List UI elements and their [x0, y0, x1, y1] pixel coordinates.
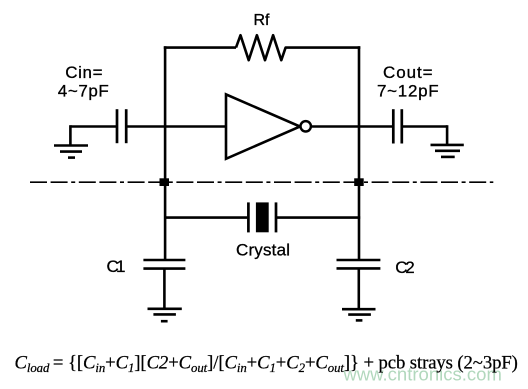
wire input to inverter — [127, 125, 226, 128]
svg-text:C1: C1 — [107, 257, 126, 276]
svg-text:C2: C2 — [395, 258, 415, 277]
capacitor C1 — [143, 260, 185, 269]
node junction left — [160, 178, 170, 186]
wire output right segment — [403, 125, 447, 128]
node junction right — [354, 178, 364, 186]
svg-text:4~7pF: 4~7pF — [58, 82, 109, 101]
wire right vertical (output node) — [358, 46, 361, 260]
wire output segment — [312, 125, 393, 128]
capacitor Cin — [117, 109, 126, 143]
svg-text:Cout=: Cout= — [383, 63, 433, 82]
wire C1 to ground — [163, 269, 166, 309]
ground right — [431, 145, 464, 157]
resistor Rf — [236, 35, 288, 60]
capacitor C2 — [337, 260, 381, 268]
inverter U1 output bubble — [301, 121, 311, 131]
wire ground drop left — [69, 125, 72, 146]
svg-text:Rf: Rf — [254, 12, 271, 29]
svg-text:Cin=: Cin= — [65, 63, 102, 82]
wire crystal left — [164, 216, 247, 219]
ground C1 — [148, 309, 182, 321]
crystal X1 — [248, 202, 276, 232]
svg-text:Cload = {[Cin+C1][C2+Cout]/[Ci: Cload = {[Cin+C1][C2+Cout]/[Cin+C1+C2+Co… — [15, 353, 518, 376]
wire left vertical (input node) — [164, 46, 167, 260]
board boundary dash-dot line — [30, 181, 493, 183]
svg-text:7~12pF: 7~12pF — [377, 82, 439, 101]
wire top right from resistor — [288, 46, 360, 49]
inverter U1 triangle — [226, 94, 300, 158]
svg-text:Crystal: Crystal — [236, 240, 290, 259]
wire C2 to ground — [357, 268, 360, 309]
capacitor Cout — [393, 109, 402, 143]
wire crystal right — [277, 216, 360, 219]
wire top left to resistor — [164, 46, 236, 49]
wire ground drop right — [446, 125, 449, 145]
ground C2 — [342, 309, 376, 320]
ground left — [54, 146, 88, 158]
wire input left segment — [70, 125, 116, 128]
